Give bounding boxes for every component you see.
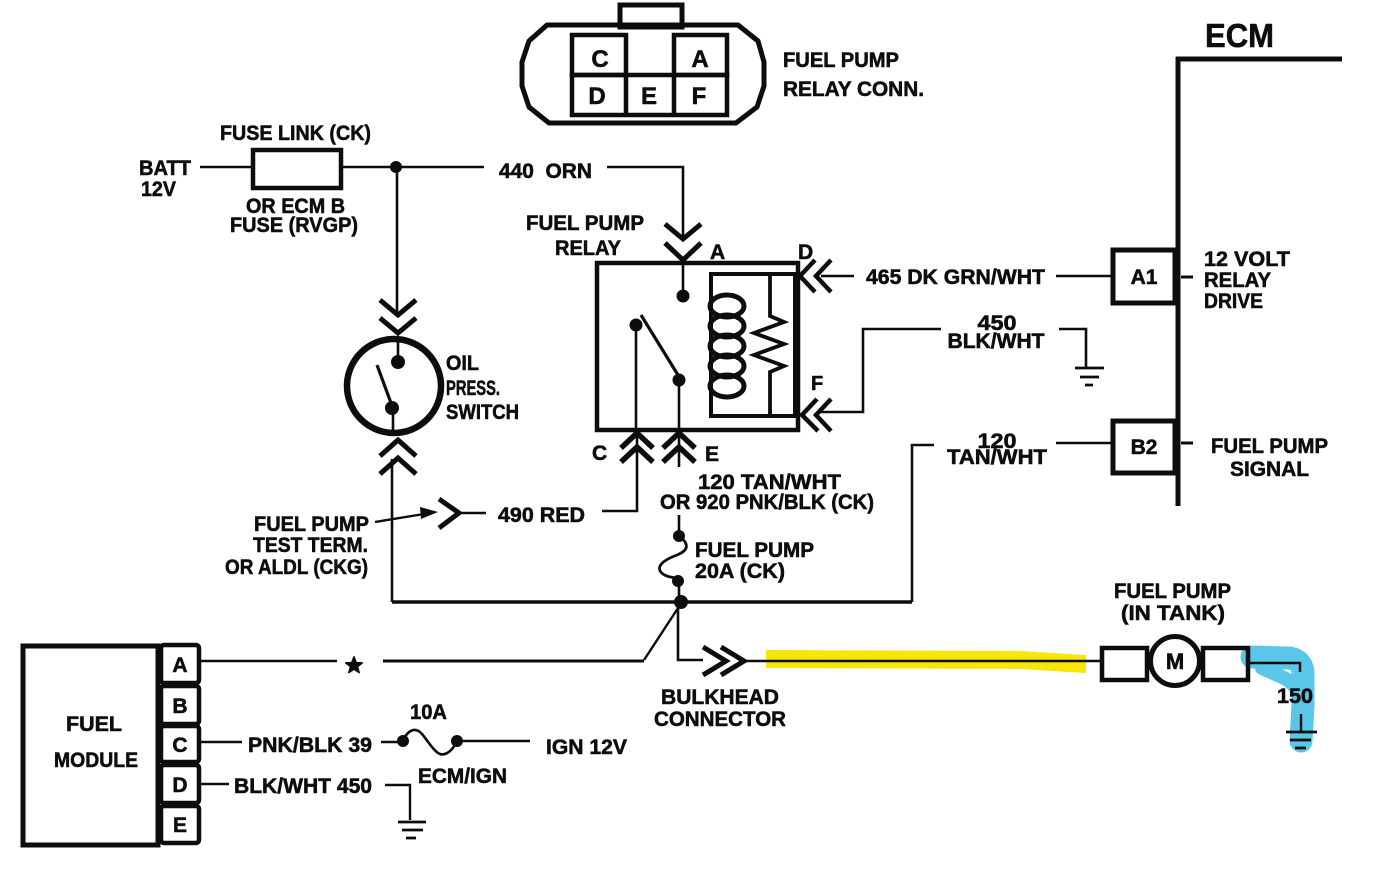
oil press switch top contact xyxy=(397,338,400,357)
bulkhead connector chevrons xyxy=(703,647,744,675)
wire E down xyxy=(678,433,681,467)
ECM top line xyxy=(1176,57,1342,62)
wire junction to bulkhead connector xyxy=(678,602,703,660)
wire 440 ORN fuse to junction xyxy=(341,166,484,169)
wire junction down to oil press switch xyxy=(396,167,399,312)
wire bulkhead to fuel pump xyxy=(746,660,1102,662)
svg-text:FUEL PUMP: FUEL PUMP xyxy=(254,513,369,536)
svg-text:A1: A1 xyxy=(1131,266,1158,289)
fuel pump relay connector outline xyxy=(522,25,764,123)
wire fuse to IGN 12V xyxy=(463,740,530,742)
svg-text:FUEL PUMP: FUEL PUMP xyxy=(783,49,899,72)
wire star to diagonal xyxy=(383,660,644,663)
wire diagonal junction to fuel module A xyxy=(644,602,682,660)
fuse 10A ECM/IGN xyxy=(397,735,409,747)
svg-text:E: E xyxy=(173,814,187,837)
relay coil box xyxy=(711,274,795,416)
wire F to 450 BLK/WHT xyxy=(820,329,941,412)
wire yellow highlight bulkhead to fuel pump xyxy=(766,650,1086,673)
connector chevrons pin D xyxy=(800,260,831,292)
svg-text:IGN 12V: IGN 12V xyxy=(546,736,627,759)
svg-text:SWITCH: SWITCH xyxy=(446,401,519,424)
svg-text:BATT: BATT xyxy=(139,157,191,180)
wire 120 TAN/WHT riser to B2 xyxy=(912,445,934,602)
connector chevrons pin A xyxy=(665,224,701,260)
svg-text:DRIVE: DRIVE xyxy=(1204,290,1263,313)
wire 120 TAN/WHT to B2 box xyxy=(1056,442,1113,445)
wire 465 DK GRN/WHT left xyxy=(821,275,854,278)
svg-text:PRESS.: PRESS. xyxy=(446,377,500,400)
connector cell C xyxy=(572,35,626,75)
svg-text:F: F xyxy=(692,83,707,110)
svg-text:FUEL PUMP: FUEL PUMP xyxy=(1114,580,1231,603)
fuse link FUSE LINK (CK) xyxy=(253,150,341,188)
svg-text:12V: 12V xyxy=(141,178,176,201)
svg-text:(IN TANK): (IN TANK) xyxy=(1121,602,1225,625)
svg-text:FUEL PUMP: FUEL PUMP xyxy=(526,212,644,235)
fuel module pin D box xyxy=(161,765,199,803)
bus wire horizontal xyxy=(392,600,912,603)
svg-text:10A: 10A xyxy=(410,701,447,724)
relay switch common contact xyxy=(630,319,643,332)
test terminal pointer arrow xyxy=(375,514,424,522)
fuel module pin C box xyxy=(161,726,199,762)
svg-text:D: D xyxy=(172,774,187,797)
pin box A1 xyxy=(1113,250,1175,303)
svg-text:FUEL PUMP: FUEL PUMP xyxy=(695,539,814,562)
svg-text:OR 920 PNK/BLK (CK): OR 920 PNK/BLK (CK) xyxy=(660,491,874,514)
wire 465 DK GRN/WHT right to A1 xyxy=(1056,275,1113,278)
wire BLK/WHT 450 to ground xyxy=(385,785,410,820)
connector cell A xyxy=(674,35,727,75)
wire E below label to fuse xyxy=(678,515,681,532)
B2 tick xyxy=(1181,442,1193,445)
svg-text:C: C xyxy=(591,46,608,73)
svg-text:465 DK GRN/WHT: 465 DK GRN/WHT xyxy=(866,266,1045,289)
svg-text:150: 150 xyxy=(1277,685,1313,708)
wire fuse to bus junction xyxy=(678,585,681,602)
wire 450 BLK/WHT to ground xyxy=(1059,329,1086,367)
svg-text:BLK/WHT: BLK/WHT xyxy=(948,330,1045,353)
splice star xyxy=(346,657,363,673)
wire C to 490 RED xyxy=(602,433,637,511)
connector chevrons below oil press switch xyxy=(380,440,416,474)
fuel module box xyxy=(23,646,158,845)
svg-text:TEST TERM.: TEST TERM. xyxy=(253,534,368,557)
svg-text:A: A xyxy=(710,241,725,264)
svg-text:FUSE (RVGP): FUSE (RVGP) xyxy=(230,214,358,237)
svg-text:490 RED: 490 RED xyxy=(498,504,585,527)
fuel pump left terminal xyxy=(1102,648,1147,680)
svg-text:D: D xyxy=(798,241,813,264)
fuel module pin E box xyxy=(161,806,199,843)
svg-text:F: F xyxy=(811,373,823,395)
wire 440 ORN to relay A xyxy=(607,167,683,236)
svg-text:BULKHEAD: BULKHEAD xyxy=(661,686,779,709)
relay resistor xyxy=(754,274,784,416)
svg-text:20A (CK): 20A (CK) xyxy=(695,560,785,583)
wire PNK/BLK 39 stub xyxy=(381,741,398,743)
relay pin A contact xyxy=(682,263,685,291)
connector chevrons pin C xyxy=(621,433,653,462)
svg-text:FUEL PUMP: FUEL PUMP xyxy=(1211,435,1328,458)
svg-text:OIL: OIL xyxy=(446,352,479,375)
svg-text:PNK/BLK 39: PNK/BLK 39 xyxy=(248,734,372,757)
svg-text:FUSE LINK (CK): FUSE LINK (CK) xyxy=(220,122,371,145)
svg-text:SIGNAL: SIGNAL xyxy=(1230,458,1309,481)
svg-text:A: A xyxy=(691,46,708,73)
fuel pump test terminal xyxy=(439,499,459,528)
svg-text:RELAY: RELAY xyxy=(1204,269,1271,292)
wire 150 to ground xyxy=(1300,714,1302,731)
svg-text:ECM/IGN: ECM/IGN xyxy=(418,765,507,788)
junction node xyxy=(390,161,402,173)
wire BATT to fuse link xyxy=(200,166,253,169)
oil press switch bottom contact xyxy=(385,401,399,415)
relay switch blade xyxy=(641,315,678,375)
connector chevrons above oil press switch xyxy=(380,300,416,333)
svg-text:12 VOLT: 12 VOLT xyxy=(1204,248,1290,271)
oil press switch blade xyxy=(377,365,391,403)
svg-text:M: M xyxy=(1166,649,1184,674)
relay switch NO contact xyxy=(673,374,686,387)
svg-text:BLK/WHT 450: BLK/WHT 450 xyxy=(234,775,372,798)
fuel pump motor xyxy=(1151,637,1200,686)
fuel pump relay box xyxy=(597,263,798,430)
svg-text:C: C xyxy=(172,734,187,757)
fuel module pin B box xyxy=(161,686,199,724)
svg-text:FUEL: FUEL xyxy=(66,713,122,736)
svg-text:440 ORN: 440 ORN xyxy=(499,160,592,183)
connector bottom row D E F xyxy=(572,75,727,115)
connector tab xyxy=(620,5,682,27)
wire fuel pump to ground 150 xyxy=(1248,663,1300,672)
svg-text:ECM: ECM xyxy=(1205,17,1274,54)
fuse FUEL PUMP 20A xyxy=(673,530,685,542)
svg-text:RELAY CONN.: RELAY CONN. xyxy=(783,78,924,101)
svg-text:OR ALDL (CKG): OR ALDL (CKG) xyxy=(225,556,368,579)
ECM vertical line xyxy=(1176,57,1181,506)
connector chevrons pin F xyxy=(802,399,831,431)
connector chevrons pin E xyxy=(663,433,695,462)
svg-text:B2: B2 xyxy=(1131,436,1158,459)
junction node bus xyxy=(674,595,688,609)
svg-text:CONNECTOR: CONNECTOR xyxy=(654,708,786,731)
wire module D to BLK/WHT 450 xyxy=(199,783,229,785)
wire oil press switch down to bus xyxy=(391,459,394,602)
wire 490 RED stub xyxy=(462,512,486,515)
svg-text:TAN/WHT: TAN/WHT xyxy=(947,446,1047,469)
svg-text:B: B xyxy=(172,695,187,718)
svg-text:E: E xyxy=(705,443,719,466)
ground 150 xyxy=(1286,732,1317,748)
wire blue highlight fuel pump to ground 150 xyxy=(1252,657,1303,741)
relay coil xyxy=(710,295,744,317)
oil pressure switch body xyxy=(347,339,441,433)
svg-text:D: D xyxy=(588,83,605,110)
fuel pump right terminal xyxy=(1203,648,1248,680)
wire module A to star xyxy=(199,660,337,662)
ground ECM/IGN xyxy=(398,822,426,838)
A1 tick xyxy=(1181,276,1193,279)
svg-text:C: C xyxy=(592,442,607,465)
svg-text:RELAY: RELAY xyxy=(555,237,621,260)
svg-text:A: A xyxy=(172,654,187,677)
wire module C to fuse 10A xyxy=(199,741,242,743)
svg-text:E: E xyxy=(641,83,657,110)
svg-text:MODULE: MODULE xyxy=(54,749,138,772)
ground 450 BLK/WHT xyxy=(1075,368,1104,385)
fuel module pin A box xyxy=(161,645,199,683)
pin box B2 xyxy=(1113,421,1175,473)
